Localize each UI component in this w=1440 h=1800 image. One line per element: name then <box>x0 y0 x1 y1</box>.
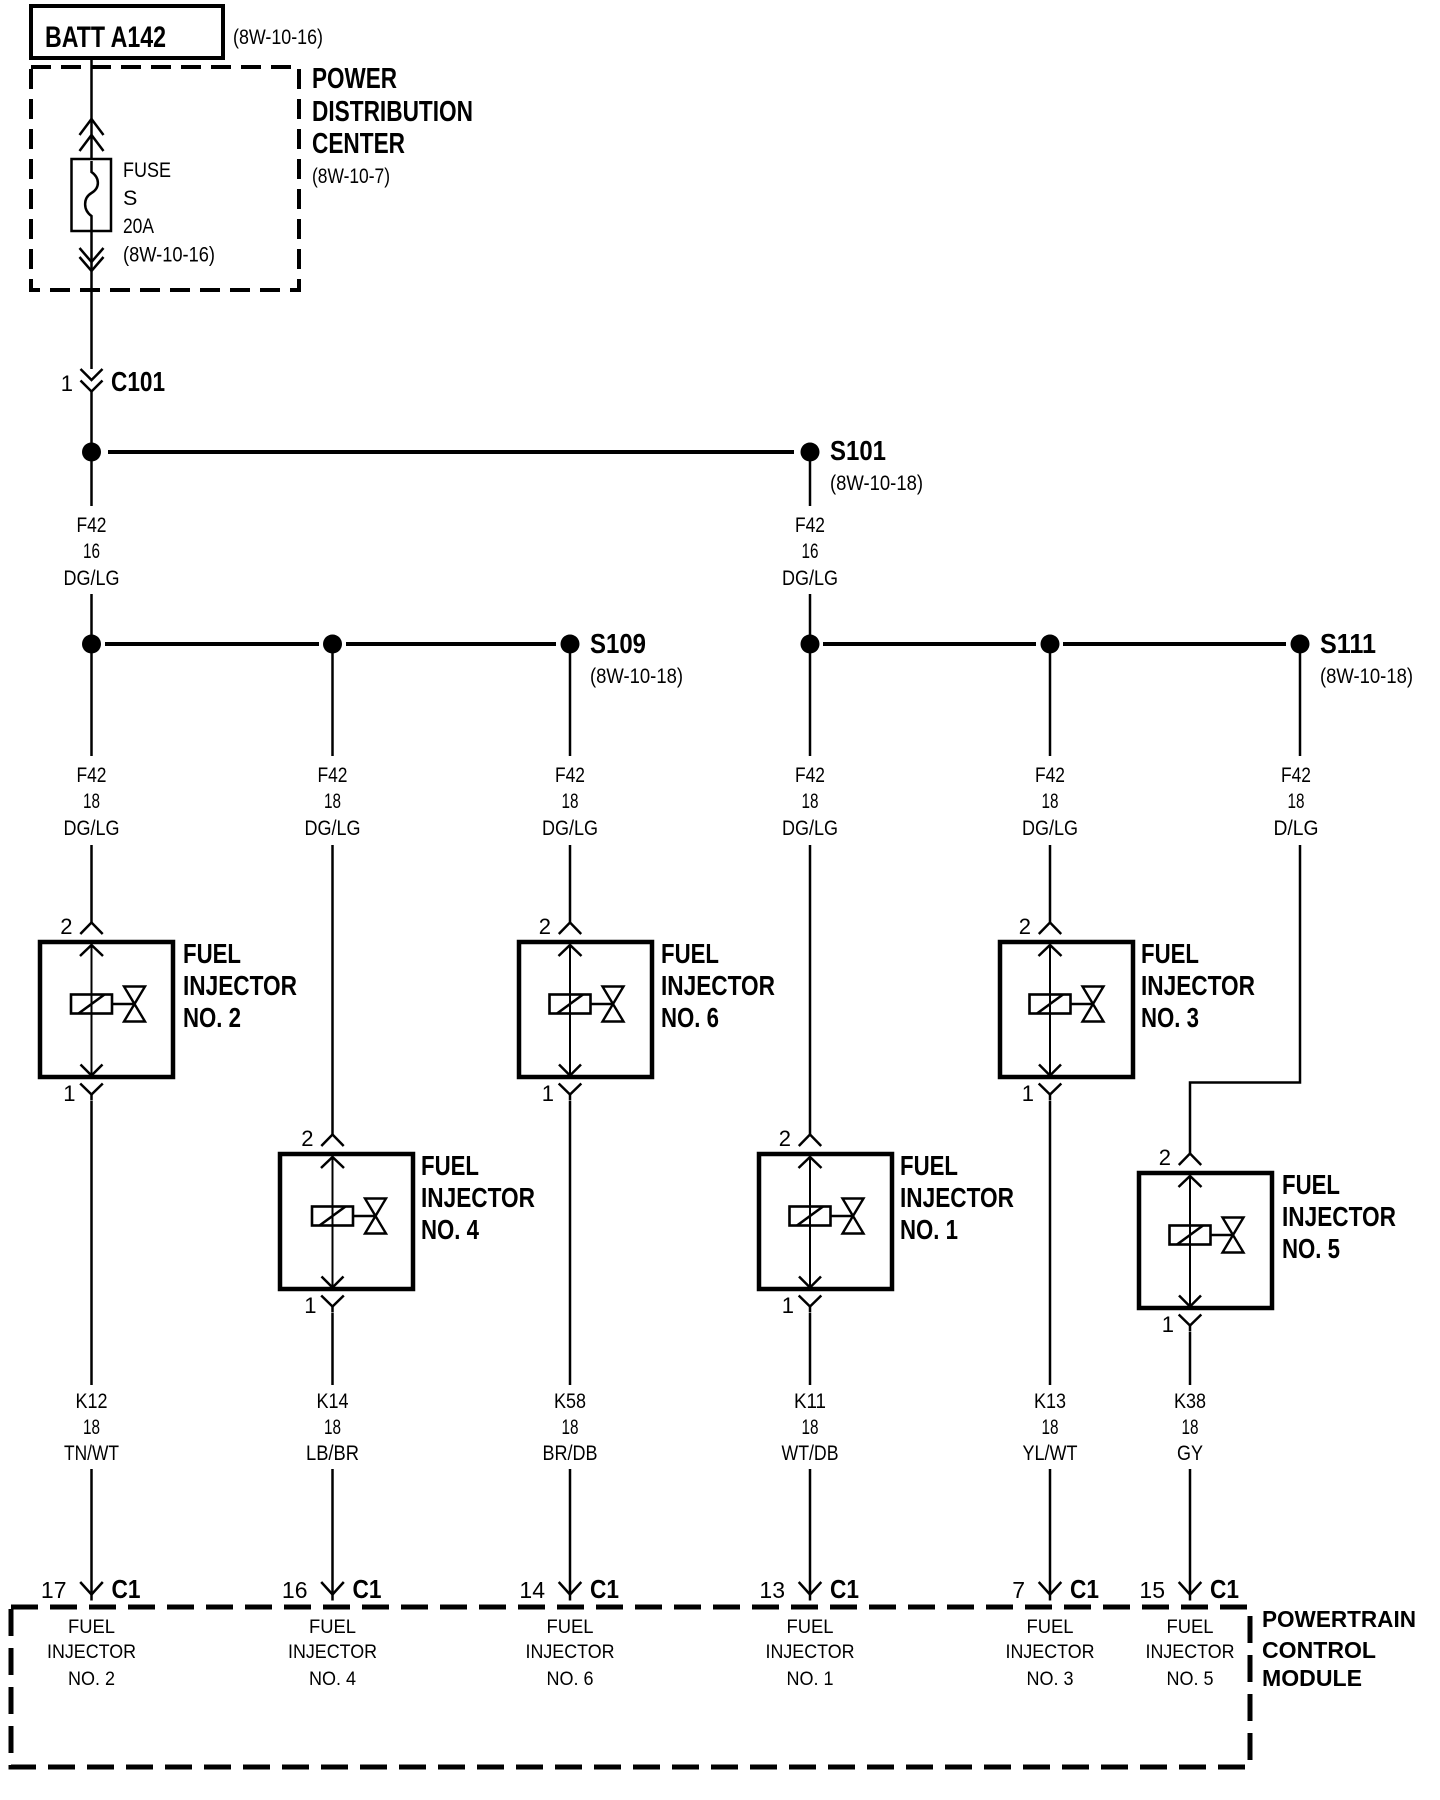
svg-text:INJECTOR: INJECTOR <box>900 1182 1014 1213</box>
connector C1 fork at pin 17 <box>80 1582 103 1601</box>
wire label F42 18 DG/LG x=91.5 <box>64 763 120 840</box>
connector C1 fork at pin 15 <box>1179 1582 1202 1601</box>
label S109 (8W-10-18) <box>590 628 683 688</box>
powertrain control module dashed box <box>11 1607 1250 1767</box>
wire C101 to splice node <box>90 392 93 444</box>
svg-text:INJECTOR: INJECTOR <box>183 970 297 1001</box>
svg-text:DG/LG: DG/LG <box>782 566 838 590</box>
power distribution center dashed box <box>31 67 299 290</box>
svg-text:C1: C1 <box>353 1574 382 1604</box>
svg-text:INJECTOR: INJECTOR <box>47 1641 136 1663</box>
svg-text:POWER: POWER <box>312 63 397 95</box>
wire branch to injector no.6 <box>569 845 572 923</box>
bus wire splice S111 <box>823 642 1036 646</box>
wire injector no.2 to K12 label <box>90 1101 93 1385</box>
svg-text:K58: K58 <box>554 1389 586 1413</box>
svg-text:C1: C1 <box>590 1574 619 1604</box>
svg-text:INJECTOR: INJECTOR <box>661 970 775 1001</box>
svg-text:(8W-10-18): (8W-10-18) <box>590 664 683 688</box>
svg-text:1: 1 <box>63 1081 75 1106</box>
svg-text:FUEL: FUEL <box>309 1616 356 1638</box>
connector chevrons above fuse <box>80 119 104 135</box>
wire branch upper segment x=1300 <box>1299 644 1302 756</box>
bottom chevron inside NO. 1 <box>799 1277 821 1288</box>
fuel injector NO. 6 pin 2 connector <box>559 923 582 957</box>
wire label K11 18 WT/DB <box>782 1389 839 1465</box>
svg-text:1: 1 <box>542 1081 554 1106</box>
fuel injector NO. 6 box <box>519 942 652 1077</box>
wire to PCM pin 13 <box>809 1469 812 1594</box>
label FUEL INJECTOR NO. 3 inside PCM <box>1006 1616 1095 1690</box>
svg-text:NO. 6: NO. 6 <box>661 1002 719 1033</box>
svg-text:1: 1 <box>61 371 73 396</box>
bus wire to S101 <box>108 450 794 454</box>
wire label F42 18 DG/LG x=332.5 <box>305 763 361 840</box>
svg-text:K38: K38 <box>1174 1389 1206 1413</box>
svg-text:LB/BR: LB/BR <box>306 1441 359 1465</box>
svg-text:FUEL: FUEL <box>787 1616 834 1638</box>
fuel injector NO. 2 pin 2 connector <box>80 923 103 957</box>
svg-text:FUEL: FUEL <box>900 1150 958 1181</box>
svg-text:(8W-10-18): (8W-10-18) <box>1320 664 1413 688</box>
svg-text:DG/LG: DG/LG <box>305 816 361 840</box>
svg-text:S: S <box>123 186 137 210</box>
label FUEL INJECTOR NO. 4 <box>421 1150 535 1245</box>
svg-text:FUEL: FUEL <box>1167 1616 1214 1638</box>
svg-text:WT/DB: WT/DB <box>782 1441 839 1465</box>
wire label F42 18 DG/LG x=1050 <box>1022 763 1078 840</box>
svg-text:2: 2 <box>1019 914 1031 939</box>
svg-text:INJECTOR: INJECTOR <box>421 1182 535 1213</box>
svg-text:F42: F42 <box>77 513 107 537</box>
svg-text:C1: C1 <box>1070 1574 1099 1604</box>
wire fuse to C101 <box>90 222 93 369</box>
svg-text:FUEL: FUEL <box>1141 938 1199 969</box>
svg-text:FUEL: FUEL <box>1027 1616 1074 1638</box>
wire to PCM pin 7 <box>1049 1469 1052 1594</box>
solenoid coil symbol of NO. 2 <box>71 987 145 1022</box>
svg-text:S109: S109 <box>590 628 646 659</box>
svg-text:18: 18 <box>1042 1415 1059 1439</box>
svg-text:C1: C1 <box>112 1574 141 1604</box>
wire label F42 16 DG/LG x=91.5 <box>64 513 120 590</box>
svg-text:BR/DB: BR/DB <box>543 1441 598 1465</box>
wire label K58 18 BR/DB <box>543 1389 598 1465</box>
label FUEL INJECTOR NO. 2 <box>183 938 297 1033</box>
svg-text:NO. 3: NO. 3 <box>1027 1668 1074 1690</box>
svg-text:2: 2 <box>301 1126 313 1151</box>
svg-text:18: 18 <box>802 789 819 813</box>
bottom chevron inside NO. 3 <box>1039 1065 1061 1076</box>
svg-text:NO. 5: NO. 5 <box>1282 1233 1340 1264</box>
wire F42 16 lower segment x=91.5 <box>90 594 93 644</box>
svg-text:13: 13 <box>759 1577 785 1603</box>
svg-text:CONTROL: CONTROL <box>1262 1637 1376 1663</box>
pin 1 connector of NO. 3 <box>1039 1084 1062 1101</box>
battery feed box BATT A142 <box>31 6 223 58</box>
svg-text:FUSE: FUSE <box>123 158 171 182</box>
svg-text:C1: C1 <box>830 1574 859 1604</box>
svg-text:NO. 3: NO. 3 <box>1141 1002 1199 1033</box>
svg-text:18: 18 <box>1042 789 1059 813</box>
svg-text:F42: F42 <box>1035 763 1065 787</box>
bottom chevron inside NO. 5 <box>1179 1296 1201 1307</box>
svg-text:16: 16 <box>83 539 100 563</box>
svg-text:20A: 20A <box>123 214 155 238</box>
svg-text:CENTER: CENTER <box>312 128 405 160</box>
svg-text:14: 14 <box>519 1577 545 1603</box>
fuse value label FUSE S 20A (8W-10-16) <box>123 158 215 267</box>
svg-text:TN/WT: TN/WT <box>64 1441 119 1465</box>
svg-text:DG/LG: DG/LG <box>64 566 120 590</box>
svg-text:BATT A142: BATT A142 <box>45 21 166 54</box>
svg-text:(8W-10-7): (8W-10-7) <box>312 164 390 188</box>
wire label F42 18 DG/LG x=570 <box>542 763 598 840</box>
wire injector no.3 to K13 label <box>1049 1101 1052 1385</box>
solenoid coil symbol of NO. 3 <box>1030 987 1104 1022</box>
svg-text:NO. 1: NO. 1 <box>900 1214 958 1245</box>
injector wire inside NO. 2 <box>91 945 93 1076</box>
wire to PCM pin 14 <box>569 1469 572 1594</box>
svg-text:S101: S101 <box>830 435 886 466</box>
wire branch upper segment x=570 <box>569 644 572 756</box>
wire branch upper segment x=810 <box>809 644 812 756</box>
label POWERTRAIN CONTROL MODULE <box>1262 1606 1416 1691</box>
svg-text:2: 2 <box>60 914 72 939</box>
svg-text:18: 18 <box>1182 1415 1199 1439</box>
svg-text:GY: GY <box>1177 1441 1203 1465</box>
wire batt to fuse <box>90 58 93 160</box>
label POWER DISTRIBUTION CENTER (8W-10-7) <box>312 63 473 188</box>
svg-text:F42: F42 <box>795 513 825 537</box>
svg-text:F42: F42 <box>318 763 348 787</box>
svg-text:FUEL: FUEL <box>547 1616 594 1638</box>
fuse S 20A <box>72 159 112 231</box>
label FUEL INJECTOR NO. 6 inside PCM <box>526 1616 615 1690</box>
label FUEL INJECTOR NO. 1 inside PCM <box>766 1616 855 1690</box>
label FUEL INJECTOR NO. 4 inside PCM <box>288 1616 377 1690</box>
label FUEL INJECTOR NO. 5 inside PCM <box>1146 1616 1235 1690</box>
wire label F42 18 D/LG x=1300 <box>1274 763 1319 840</box>
wire injector no.5 to K38 label <box>1189 1332 1192 1385</box>
wire injector no.6 to K58 label <box>569 1101 572 1385</box>
svg-text:K12: K12 <box>76 1389 108 1413</box>
bus wire splice S109 <box>105 642 319 646</box>
wire to PCM pin 15 <box>1189 1469 1192 1594</box>
svg-text:INJECTOR: INJECTOR <box>526 1641 615 1663</box>
svg-text:18: 18 <box>83 789 100 813</box>
svg-text:FUEL: FUEL <box>68 1616 115 1638</box>
svg-text:NO. 1: NO. 1 <box>787 1668 834 1690</box>
injector wire inside NO. 6 <box>569 945 571 1076</box>
svg-text:NO. 4: NO. 4 <box>421 1214 479 1245</box>
svg-text:C101: C101 <box>111 366 165 397</box>
svg-text:NO. 2: NO. 2 <box>68 1668 115 1690</box>
fuel injector NO. 5 box <box>1139 1173 1272 1308</box>
wire label K14 18 LB/BR <box>306 1389 359 1465</box>
svg-text:DG/LG: DG/LG <box>64 816 120 840</box>
svg-text:1: 1 <box>1162 1312 1174 1337</box>
svg-text:F42: F42 <box>77 763 107 787</box>
injector wire inside NO. 3 <box>1049 945 1051 1076</box>
pin 1 connector of NO. 6 <box>559 1084 582 1101</box>
svg-text:C1: C1 <box>1210 1574 1239 1604</box>
svg-text:1: 1 <box>304 1293 316 1318</box>
fuel injector NO. 3 box <box>1000 942 1133 1077</box>
svg-text:1: 1 <box>1022 1081 1034 1106</box>
solenoid coil symbol of NO. 5 <box>1170 1218 1244 1253</box>
fuel injector NO. 4 pin 2 connector <box>321 1135 344 1169</box>
svg-text:16: 16 <box>282 1577 308 1603</box>
svg-text:F42: F42 <box>555 763 585 787</box>
label FUEL INJECTOR NO. 5 <box>1282 1169 1396 1264</box>
injector wire inside NO. 4 <box>332 1157 334 1288</box>
wire F42 16 upper segment x=810 <box>809 452 812 506</box>
fuel injector NO. 2 box <box>40 942 173 1077</box>
wire injector no.4 to K14 label <box>331 1313 334 1385</box>
svg-text:NO. 6: NO. 6 <box>547 1668 594 1690</box>
wire injector no.1 to K11 label <box>809 1313 812 1385</box>
wire to PCM pin 16 <box>331 1469 334 1594</box>
svg-text:NO. 5: NO. 5 <box>1167 1668 1214 1690</box>
fuel injector NO. 5 pin 2 connector <box>1179 1154 1202 1188</box>
label FUEL INJECTOR NO. 2 inside PCM <box>47 1616 136 1690</box>
svg-text:FUEL: FUEL <box>421 1150 479 1181</box>
pin 1 connector of NO. 4 <box>321 1296 344 1313</box>
svg-text:(8W-10-16): (8W-10-16) <box>233 25 323 49</box>
svg-text:F42: F42 <box>1281 763 1311 787</box>
svg-text:18: 18 <box>324 1415 341 1439</box>
svg-text:16: 16 <box>802 539 819 563</box>
injector wire inside NO. 5 <box>1189 1176 1191 1307</box>
svg-text:INJECTOR: INJECTOR <box>1146 1641 1235 1663</box>
svg-text:YL/WT: YL/WT <box>1023 1441 1078 1465</box>
junction dot at bus F42 <box>82 443 101 462</box>
svg-text:INJECTOR: INJECTOR <box>1006 1641 1095 1663</box>
junction dots on buses <box>82 635 101 654</box>
svg-text:NO. 4: NO. 4 <box>309 1668 356 1690</box>
label FUEL INJECTOR NO. 3 <box>1141 938 1255 1033</box>
svg-text:18: 18 <box>324 789 341 813</box>
wire branch to injector no.2 <box>90 845 93 923</box>
svg-text:(8W-10-18): (8W-10-18) <box>830 471 923 495</box>
svg-text:(8W-10-16): (8W-10-16) <box>123 243 215 267</box>
svg-text:FUEL: FUEL <box>661 938 719 969</box>
connector C101 <box>81 369 103 392</box>
connector C1 fork at pin 16 <box>321 1582 344 1601</box>
wire branch upper segment x=91.5 <box>90 644 93 756</box>
wire label F42 16 DG/LG x=810 <box>782 513 838 590</box>
wire F42 16 upper segment x=91.5 <box>90 452 93 506</box>
wire branch upper segment x=332.5 <box>331 644 334 756</box>
pin 1 connector of NO. 5 <box>1179 1315 1202 1332</box>
solenoid coil symbol of NO. 6 <box>550 987 624 1022</box>
svg-text:D/LG: D/LG <box>1274 816 1319 840</box>
svg-text:18: 18 <box>1288 789 1305 813</box>
bottom chevron inside NO. 6 <box>559 1065 581 1076</box>
svg-text:18: 18 <box>802 1415 819 1439</box>
svg-text:INJECTOR: INJECTOR <box>766 1641 855 1663</box>
svg-text:FUEL: FUEL <box>183 938 241 969</box>
svg-text:18: 18 <box>83 1415 100 1439</box>
wire branch to injector no.3 <box>1049 845 1052 923</box>
fuel injector NO. 1 box <box>759 1154 892 1289</box>
label FUEL INJECTOR NO. 6 <box>661 938 775 1033</box>
wire branch to injector no.4 <box>331 845 334 1135</box>
svg-text:18: 18 <box>562 789 579 813</box>
fuel injector NO. 4 box <box>280 1154 413 1289</box>
fuel injector NO. 1 pin 2 connector <box>799 1135 822 1169</box>
svg-text:2: 2 <box>1159 1145 1171 1170</box>
svg-text:7: 7 <box>1012 1577 1025 1603</box>
wire branch to injector no.1 <box>809 845 812 1135</box>
wire F42 16 lower segment x=810 <box>809 594 812 644</box>
solenoid coil symbol of NO. 1 <box>790 1199 864 1234</box>
svg-text:INJECTOR: INJECTOR <box>1282 1201 1396 1232</box>
connector chevrons below fuse <box>80 248 104 262</box>
wire to PCM pin 17 <box>90 1469 93 1594</box>
svg-text:POWERTRAIN: POWERTRAIN <box>1262 1606 1416 1632</box>
bottom chevron inside NO. 4 <box>322 1277 344 1288</box>
svg-text:1: 1 <box>782 1293 794 1318</box>
connector C1 fork at pin 7 <box>1039 1582 1062 1601</box>
wire label K13 18 YL/WT <box>1023 1389 1078 1465</box>
svg-text:K13: K13 <box>1034 1389 1066 1413</box>
svg-text:FUEL: FUEL <box>1282 1169 1340 1200</box>
svg-text:S111: S111 <box>1320 628 1376 659</box>
connector C1 fork at pin 14 <box>559 1582 582 1601</box>
bottom chevron inside NO. 2 <box>81 1065 103 1076</box>
wire label K12 18 TN/WT <box>64 1389 119 1465</box>
injector wire inside NO. 1 <box>809 1157 811 1288</box>
svg-text:2: 2 <box>779 1126 791 1151</box>
svg-text:INJECTOR: INJECTOR <box>1141 970 1255 1001</box>
svg-text:15: 15 <box>1139 1577 1165 1603</box>
svg-text:DG/LG: DG/LG <box>1022 816 1078 840</box>
svg-text:F42: F42 <box>795 763 825 787</box>
splice S101 <box>801 443 820 462</box>
label FUEL INJECTOR NO. 1 <box>900 1150 1014 1245</box>
pin 1 connector of NO. 2 <box>80 1084 103 1101</box>
wire branch S111 to injector no.5 (jog) <box>1190 845 1300 1154</box>
solenoid coil symbol of NO. 4 <box>312 1199 386 1234</box>
svg-text:DG/LG: DG/LG <box>782 816 838 840</box>
svg-text:2: 2 <box>539 914 551 939</box>
fuel injector NO. 3 pin 2 connector <box>1039 923 1062 957</box>
wire label K38 18 GY <box>1174 1389 1206 1465</box>
connector C1 fork at pin 13 <box>799 1582 822 1601</box>
svg-text:18: 18 <box>562 1415 579 1439</box>
svg-text:K11: K11 <box>794 1389 826 1413</box>
svg-text:INJECTOR: INJECTOR <box>288 1641 377 1663</box>
wire branch upper segment x=1050 <box>1049 644 1052 756</box>
svg-text:17: 17 <box>41 1577 67 1603</box>
svg-text:DISTRIBUTION: DISTRIBUTION <box>312 96 473 128</box>
label S111 (8W-10-18) <box>1320 628 1413 688</box>
svg-text:DG/LG: DG/LG <box>542 816 598 840</box>
svg-text:NO. 2: NO. 2 <box>183 1002 241 1033</box>
pin 1 connector of NO. 1 <box>799 1296 822 1313</box>
label S101 (8W-10-18) <box>830 435 923 495</box>
svg-text:K14: K14 <box>317 1389 349 1413</box>
wire label F42 18 DG/LG x=810 <box>782 763 838 840</box>
svg-text:MODULE: MODULE <box>1262 1665 1362 1691</box>
